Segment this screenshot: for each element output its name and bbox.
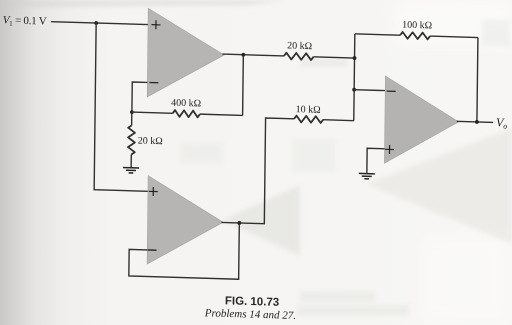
ground symbol G1 bbox=[123, 168, 139, 174]
resistor R3 20 kOhm (series to summing bus) bbox=[284, 53, 355, 62]
wire from U2 output tip right and up to 10k bbox=[221, 117, 294, 225]
node junction dot at U1 output bbox=[241, 53, 245, 57]
node junction dot at input branch bbox=[94, 21, 98, 25]
wire from input label to op-amp U1 + input bbox=[51, 22, 148, 25]
summing bus vertical wire bbox=[354, 34, 355, 121]
faint bleed-through text blob bottom right line 2 bbox=[297, 305, 409, 316]
wire vertical from U1 output node down to 400k bbox=[242, 55, 245, 116]
op-amp U2 (bottom) bbox=[147, 176, 224, 267]
op-amp U3 plus input symbol bbox=[385, 145, 394, 154]
wire vertical from 100k down to output node bbox=[477, 38, 478, 122]
resistor R4 10 kOhm (series to summing bus) bbox=[294, 116, 354, 124]
wire feedback loop of U2 (voltage follower) bbox=[129, 220, 239, 280]
svg-text:400 kΩ: 400 kΩ bbox=[171, 98, 201, 110]
wire vertical from input node down to op-amp U2 + input bbox=[94, 23, 150, 191]
node junction dot bus top (20k join) bbox=[353, 56, 357, 60]
node junction dot bus (minus input join) bbox=[352, 88, 356, 92]
faint bleed-through text blob bottom right line 1 bbox=[300, 291, 376, 302]
wire from U3 output tip to Vo bbox=[457, 121, 494, 122]
svg-text:10 kΩ: 10 kΩ bbox=[296, 104, 321, 116]
svg-text:20 kΩ: 20 kΩ bbox=[138, 135, 163, 147]
op-amp U3 (right) bbox=[384, 76, 459, 165]
faint bleed-through text blob mid bbox=[292, 138, 336, 172]
top-right highlight bbox=[395, 0, 512, 46]
bottom-right highlight bbox=[420, 235, 512, 325]
node junction dot at 400k / 20k feedback node bbox=[130, 110, 134, 114]
ghost bleed-through triangle below op-amp U3 bbox=[366, 128, 512, 244]
faint bleed-through text blob top far right bbox=[482, 20, 510, 46]
faint bleed-through text blob top right bbox=[300, 58, 348, 67]
wire from U1 minus input to feedback node bbox=[132, 82, 147, 113]
wire from U3 plus input to ground bbox=[367, 148, 385, 173]
op-amp U2 minus input symbol bbox=[148, 249, 157, 251]
op-amp U3 minus input symbol bbox=[387, 90, 396, 92]
op-amp U2 plus input symbol bbox=[149, 187, 158, 196]
wire from bus to U3 minus input bbox=[354, 89, 385, 92]
ghost bleed-through triangle near op-amp U2 bbox=[222, 185, 300, 256]
top page-edge shadow band bbox=[0, 0, 285, 8]
ground symbol G2 bbox=[359, 173, 375, 179]
op-amp U1 (top left) bbox=[147, 8, 224, 99]
node junction dot at output bbox=[475, 120, 479, 124]
op-amp U1 minus input symbol bbox=[149, 82, 158, 84]
node junction dot at U2 output bbox=[237, 221, 241, 225]
svg-text:20 kΩ: 20 kΩ bbox=[287, 40, 312, 52]
resistor R1 20 kOhm (vertical to ground) bbox=[128, 112, 135, 167]
wire from U1 output tip to 20k resistor bbox=[222, 54, 284, 56]
svg-text:FIG. 10.73: FIG. 10.73 bbox=[225, 295, 279, 309]
faint bleed-through text blob mid left bbox=[180, 142, 224, 164]
svg-text:100 kΩ: 100 kΩ bbox=[402, 20, 432, 32]
op-amp U1 plus input symbol bbox=[151, 20, 160, 29]
resistor R2 400 kOhm (feedback of U1) bbox=[132, 109, 243, 119]
resistor R5 100 kOhm (feedback of U3) bbox=[355, 31, 478, 41]
